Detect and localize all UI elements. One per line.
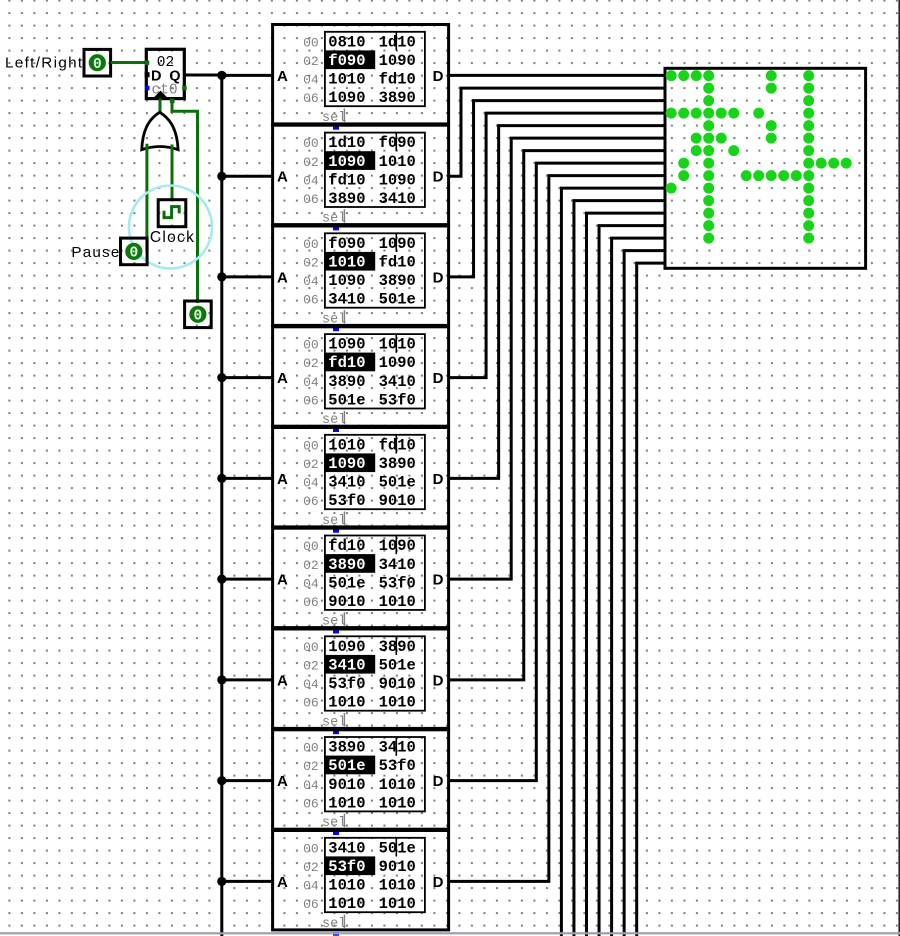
svg-text:02: 02 bbox=[303, 759, 319, 774]
led r7c13 bbox=[828, 158, 839, 169]
svg-text:D: D bbox=[433, 874, 444, 891]
led r4c3 bbox=[703, 120, 714, 131]
canvas right border bbox=[898, 0, 900, 936]
wire ROM13 (offscreen) D to matrix row 12 bbox=[599, 226, 665, 936]
wire ROM7 D to matrix row 6 bbox=[449, 151, 665, 680]
svg-text:53f0: 53f0 bbox=[379, 757, 416, 775]
node bus junction 6 bbox=[217, 575, 226, 584]
svg-text:fd10: fd10 bbox=[379, 436, 416, 454]
svg-text:00: 00 bbox=[303, 640, 319, 655]
clock CLK1 bbox=[158, 200, 186, 227]
led r2c11 bbox=[803, 95, 814, 106]
wire Left/Right pin to counter D input bbox=[111, 61, 146, 64]
node ROM8 sel pin bbox=[333, 731, 339, 735]
led r8c6 bbox=[741, 170, 752, 181]
wire ROM4 D to matrix row 3 bbox=[449, 113, 665, 378]
svg-text:A: A bbox=[277, 572, 288, 589]
svg-text:1d10: 1d10 bbox=[328, 134, 365, 152]
led r7c12 bbox=[816, 158, 827, 169]
led r7c3 bbox=[703, 158, 714, 169]
led r0c1 bbox=[678, 70, 689, 81]
svg-text:3890: 3890 bbox=[379, 638, 416, 656]
node bus junction 3 bbox=[217, 272, 226, 281]
node bus junction 9 bbox=[217, 877, 226, 886]
svg-text:1090: 1090 bbox=[379, 52, 416, 70]
svg-text:1010: 1010 bbox=[328, 877, 365, 895]
svg-text:04: 04 bbox=[303, 375, 319, 390]
ROM U2 bbox=[273, 25, 449, 126]
svg-text:1010: 1010 bbox=[328, 794, 365, 812]
wire ROM8 D to matrix row 7 bbox=[449, 163, 665, 781]
led r0c2 bbox=[691, 70, 702, 81]
svg-text:00: 00 bbox=[303, 338, 319, 353]
led r1c3 bbox=[703, 83, 714, 94]
svg-text:3410: 3410 bbox=[379, 739, 416, 757]
wire bus to ROM1 A input bbox=[222, 74, 273, 77]
or-gate G1 bbox=[142, 112, 178, 150]
wire ROM5 D to matrix row 4 bbox=[449, 126, 665, 479]
canvas bottom border bbox=[0, 932, 900, 934]
svg-text:9010: 9010 bbox=[328, 593, 365, 611]
svg-text:06: 06 bbox=[303, 796, 319, 811]
svg-text:501e: 501e bbox=[328, 391, 365, 409]
led r6c11 bbox=[803, 145, 814, 156]
svg-text:1010: 1010 bbox=[379, 694, 416, 712]
wire bus to ROM2 A input bbox=[222, 175, 273, 178]
led r3c5 bbox=[728, 108, 739, 119]
svg-text:1090: 1090 bbox=[328, 153, 365, 171]
svg-text:1090: 1090 bbox=[379, 537, 416, 555]
node bus junction 7 bbox=[217, 675, 226, 684]
ROM U9 bbox=[273, 730, 449, 831]
svg-text:fd10: fd10 bbox=[328, 171, 365, 189]
node ROM4 sel pin bbox=[333, 328, 339, 332]
wire ROM1 D to matrix row 0 bbox=[449, 74, 665, 77]
svg-text:06: 06 bbox=[303, 696, 319, 711]
led r12c3 bbox=[703, 220, 714, 231]
wire counter Q output to bus bbox=[184, 74, 222, 77]
svg-text:1010: 1010 bbox=[328, 254, 365, 272]
svg-text:0: 0 bbox=[93, 57, 102, 73]
led r6c3 bbox=[703, 145, 714, 156]
led r11c11 bbox=[803, 208, 814, 219]
svg-text:1090: 1090 bbox=[379, 354, 416, 372]
svg-text:53f0: 53f0 bbox=[328, 675, 365, 693]
led r8c10 bbox=[791, 170, 802, 181]
svg-text:3890: 3890 bbox=[328, 556, 365, 574]
svg-text:04: 04 bbox=[303, 879, 319, 894]
clock halo circle bbox=[129, 186, 212, 269]
svg-text:00: 00 bbox=[303, 741, 319, 756]
wire counter clock input to OR output bbox=[159, 99, 162, 113]
svg-text:06: 06 bbox=[303, 595, 319, 610]
svg-text:9010: 9010 bbox=[379, 858, 416, 876]
led r3c0 bbox=[666, 108, 677, 119]
svg-text:53f0: 53f0 bbox=[328, 858, 365, 876]
svg-text:sel: sel bbox=[322, 312, 346, 327]
wire bus to ROM8 A input bbox=[222, 779, 273, 782]
svg-text:00: 00 bbox=[303, 841, 319, 856]
led r3c3 bbox=[703, 108, 714, 119]
wire ROM14 (offscreen) D to matrix row 13 bbox=[612, 238, 665, 936]
svg-text:501e: 501e bbox=[328, 574, 365, 592]
svg-text:1010: 1010 bbox=[379, 153, 416, 171]
wire ROM2 D to matrix row 1 bbox=[449, 88, 665, 176]
svg-text:06: 06 bbox=[303, 192, 319, 207]
led r5c3 bbox=[703, 133, 714, 144]
svg-text:04: 04 bbox=[303, 576, 319, 591]
led r8c11 bbox=[803, 170, 814, 181]
svg-text:3890: 3890 bbox=[328, 739, 365, 757]
svg-text:53f0: 53f0 bbox=[328, 492, 365, 510]
node bus junction 8 bbox=[217, 776, 226, 785]
svg-text:1090: 1090 bbox=[328, 638, 365, 656]
svg-text:A: A bbox=[277, 773, 288, 790]
led r11c3 bbox=[703, 208, 714, 219]
ROM U7 bbox=[273, 528, 449, 629]
led r4c8 bbox=[766, 120, 777, 131]
wire bus to ROM7 A input bbox=[222, 678, 273, 681]
ROM U6 bbox=[273, 428, 449, 529]
svg-text:fd10: fd10 bbox=[379, 71, 416, 89]
svg-text:3410: 3410 bbox=[379, 190, 416, 208]
wire counter enable to bottom pin bbox=[172, 100, 198, 303]
svg-text:00: 00 bbox=[303, 136, 319, 151]
svg-text:00: 00 bbox=[303, 438, 319, 453]
counter U1 bbox=[145, 49, 187, 103]
led r7c11 bbox=[803, 158, 814, 169]
svg-text:A: A bbox=[277, 672, 288, 689]
led r7c14 bbox=[841, 158, 852, 169]
ROM U8 bbox=[273, 629, 449, 730]
svg-text:fd10: fd10 bbox=[328, 354, 365, 372]
svg-text:1090: 1090 bbox=[379, 235, 416, 253]
svg-text:04: 04 bbox=[303, 173, 319, 188]
svg-text:501e: 501e bbox=[379, 839, 416, 857]
svg-text:f090: f090 bbox=[328, 235, 365, 253]
svg-text:501e: 501e bbox=[379, 657, 416, 675]
led r9c11 bbox=[803, 183, 814, 194]
led r3c1 bbox=[678, 108, 689, 119]
wire address bus vertical bbox=[220, 75, 223, 936]
wire bus to ROM5 A input bbox=[222, 477, 273, 480]
svg-text:1090: 1090 bbox=[328, 336, 365, 354]
svg-text:3410: 3410 bbox=[379, 373, 416, 391]
svg-text:Pause: Pause bbox=[71, 244, 120, 261]
svg-text:06: 06 bbox=[303, 393, 319, 408]
wire bus to ROM9 A input bbox=[222, 880, 273, 883]
led r0c8 bbox=[766, 70, 777, 81]
svg-text:3890: 3890 bbox=[379, 455, 416, 473]
svg-text:02: 02 bbox=[303, 356, 319, 371]
svg-text:1010: 1010 bbox=[328, 694, 365, 712]
node bus junction 4 bbox=[217, 373, 226, 382]
svg-text:04: 04 bbox=[303, 274, 319, 289]
svg-text:1010: 1010 bbox=[328, 895, 365, 913]
wire bus to ROM6 A input bbox=[222, 578, 273, 581]
svg-text:A: A bbox=[277, 874, 288, 891]
svg-text:06: 06 bbox=[303, 494, 319, 509]
svg-text:9010: 9010 bbox=[379, 492, 416, 510]
svg-text:sel: sel bbox=[322, 111, 346, 126]
svg-text:1090: 1090 bbox=[328, 272, 365, 290]
svg-text:sel: sel bbox=[322, 413, 346, 428]
wire ROM6 D to matrix row 5 bbox=[449, 138, 665, 579]
node bus junction 2 bbox=[217, 172, 226, 181]
led r8c7 bbox=[753, 170, 764, 181]
svg-text:1010: 1010 bbox=[328, 436, 365, 454]
svg-text:3890: 3890 bbox=[379, 272, 416, 290]
svg-text:0: 0 bbox=[129, 246, 138, 262]
svg-text:A: A bbox=[277, 471, 288, 488]
svg-text:sel: sel bbox=[322, 715, 346, 730]
svg-text:f090: f090 bbox=[328, 52, 365, 70]
svg-text:04: 04 bbox=[303, 476, 319, 491]
svg-text:Left/Right: Left/Right bbox=[5, 55, 84, 72]
svg-text:sel: sel bbox=[322, 514, 346, 529]
svg-text:501e: 501e bbox=[328, 757, 365, 775]
led matrix display bbox=[665, 68, 866, 268]
led r10c11 bbox=[803, 195, 814, 206]
node ROM5 sel pin bbox=[333, 428, 339, 432]
svg-text:00: 00 bbox=[303, 237, 319, 252]
wire OR right input to Clock output bbox=[171, 145, 174, 200]
svg-text:0: 0 bbox=[194, 309, 203, 325]
svg-text:3890: 3890 bbox=[328, 373, 365, 391]
svg-text:1010: 1010 bbox=[328, 71, 365, 89]
led r8c3 bbox=[703, 170, 714, 181]
svg-text:9010: 9010 bbox=[379, 675, 416, 693]
led r5c4 bbox=[716, 133, 727, 144]
led r3c7 bbox=[753, 108, 764, 119]
led r1c11 bbox=[803, 83, 814, 94]
wire ROM3 D to matrix row 2 bbox=[449, 101, 665, 277]
svg-text:D: D bbox=[433, 169, 444, 186]
svg-text:3410: 3410 bbox=[328, 839, 365, 857]
led r3c2 bbox=[691, 108, 702, 119]
svg-text:D: D bbox=[433, 572, 444, 589]
led r6c2 bbox=[691, 145, 702, 156]
svg-text:501e: 501e bbox=[379, 291, 416, 309]
svg-text:53f0: 53f0 bbox=[379, 391, 416, 409]
input pin Pause bbox=[121, 238, 148, 265]
svg-text:1010: 1010 bbox=[379, 776, 416, 794]
node bus junction 1 bbox=[217, 71, 226, 80]
led r13c11 bbox=[803, 233, 814, 244]
svg-text:06: 06 bbox=[303, 91, 319, 106]
svg-text:9010: 9010 bbox=[328, 776, 365, 794]
led r0c0 bbox=[666, 70, 677, 81]
svg-text:00: 00 bbox=[303, 539, 319, 554]
svg-text:D: D bbox=[433, 773, 444, 790]
ROM U10 bbox=[273, 831, 449, 932]
svg-text:D: D bbox=[433, 471, 444, 488]
svg-text:00: 00 bbox=[303, 35, 319, 50]
svg-text:3410: 3410 bbox=[328, 291, 365, 309]
svg-text:06: 06 bbox=[303, 293, 319, 308]
svg-text:1090: 1090 bbox=[328, 455, 365, 473]
led r9c0 bbox=[666, 183, 677, 194]
led r4c11 bbox=[803, 120, 814, 131]
wire ROM16 (offscreen) D to matrix row 15 bbox=[637, 263, 665, 936]
ROM U5 bbox=[273, 327, 449, 428]
svg-text:f090: f090 bbox=[379, 134, 416, 152]
svg-text:D: D bbox=[433, 269, 444, 286]
wire ROM10 (offscreen) D to matrix row 9 bbox=[561, 188, 665, 936]
svg-text:sel: sel bbox=[322, 917, 346, 932]
input pin Left/Right bbox=[84, 49, 111, 76]
led r8c9 bbox=[778, 170, 789, 181]
led r0c11 bbox=[803, 70, 814, 81]
input pin enable value 0 bbox=[185, 301, 212, 328]
led r9c3 bbox=[703, 183, 714, 194]
svg-text:501e: 501e bbox=[379, 474, 416, 492]
led r5c11 bbox=[803, 133, 814, 144]
svg-text:02: 02 bbox=[303, 659, 319, 674]
svg-text:fd10: fd10 bbox=[379, 254, 416, 272]
svg-text:Clock: Clock bbox=[150, 229, 195, 246]
svg-text:04: 04 bbox=[303, 677, 319, 692]
svg-text:sel: sel bbox=[322, 615, 346, 630]
svg-text:02: 02 bbox=[303, 558, 319, 573]
node ROM3 sel pin bbox=[333, 227, 339, 231]
led r13c3 bbox=[703, 233, 714, 244]
wire ROM12 (offscreen) D to matrix row 11 bbox=[587, 213, 666, 936]
svg-text:3410: 3410 bbox=[379, 556, 416, 574]
led r3c11 bbox=[803, 108, 814, 119]
ROM U4 bbox=[273, 226, 449, 327]
led r5c2 bbox=[691, 133, 702, 144]
svg-text:1010: 1010 bbox=[379, 593, 416, 611]
svg-text:3890: 3890 bbox=[379, 89, 416, 107]
svg-text:1090: 1090 bbox=[328, 89, 365, 107]
svg-text:04: 04 bbox=[303, 73, 319, 88]
svg-text:1010: 1010 bbox=[379, 794, 416, 812]
wire ROM9 D to matrix row 8 bbox=[449, 176, 665, 882]
svg-text:02: 02 bbox=[303, 457, 319, 472]
svg-text:1d10: 1d10 bbox=[379, 33, 416, 51]
svg-text:3410: 3410 bbox=[328, 474, 365, 492]
led r3c4 bbox=[716, 108, 727, 119]
wire ROM11 (offscreen) D to matrix row 10 bbox=[574, 201, 665, 936]
svg-text:A: A bbox=[277, 68, 288, 85]
svg-text:1010: 1010 bbox=[379, 336, 416, 354]
svg-text:1010: 1010 bbox=[379, 877, 416, 895]
svg-text:D: D bbox=[433, 672, 444, 689]
svg-text:53f0: 53f0 bbox=[379, 574, 416, 592]
node ROM7 sel pin bbox=[333, 630, 339, 634]
svg-text:fd10: fd10 bbox=[328, 537, 365, 555]
wire OR left input to Pause pin bbox=[145, 144, 148, 252]
svg-text:1010: 1010 bbox=[379, 895, 416, 913]
led r8c8 bbox=[766, 170, 777, 181]
svg-text:06: 06 bbox=[303, 897, 319, 912]
node ROM2 sel pin bbox=[333, 126, 339, 130]
wire bus to ROM4 A input bbox=[222, 376, 273, 379]
svg-text:A: A bbox=[277, 269, 288, 286]
led r5c8 bbox=[766, 133, 777, 144]
svg-text:02: 02 bbox=[303, 155, 319, 170]
svg-text:1090: 1090 bbox=[379, 171, 416, 189]
led r8c1 bbox=[678, 170, 689, 181]
ROM U3 bbox=[273, 125, 449, 226]
svg-text:02: 02 bbox=[303, 860, 319, 875]
svg-text:3890: 3890 bbox=[328, 190, 365, 208]
node ROM10 sel pin bbox=[333, 932, 339, 936]
svg-text:D: D bbox=[433, 68, 444, 85]
svg-text:02: 02 bbox=[303, 256, 319, 271]
node ROM6 sel pin bbox=[333, 529, 339, 533]
svg-text:A: A bbox=[277, 169, 288, 186]
led r1c8 bbox=[766, 83, 777, 94]
svg-text:04: 04 bbox=[303, 778, 319, 793]
led r6c5 bbox=[728, 145, 739, 156]
svg-text:sel: sel bbox=[322, 212, 346, 227]
led r2c3 bbox=[703, 95, 714, 106]
led r10c3 bbox=[703, 195, 714, 206]
svg-text:A: A bbox=[277, 370, 288, 387]
node bus junction 5 bbox=[217, 474, 226, 483]
svg-text:02: 02 bbox=[303, 54, 319, 69]
svg-text:D: D bbox=[433, 370, 444, 387]
led r0c3 bbox=[703, 70, 714, 81]
wire ROM15 (offscreen) D to matrix row 14 bbox=[624, 251, 665, 936]
svg-text:0810: 0810 bbox=[328, 33, 365, 51]
led r12c11 bbox=[803, 220, 814, 231]
svg-text:sel: sel bbox=[322, 816, 346, 831]
svg-text:3410: 3410 bbox=[328, 657, 365, 675]
wire bus to ROM3 A input bbox=[222, 275, 273, 278]
led r7c1 bbox=[678, 158, 689, 169]
node ROM9 sel pin bbox=[333, 831, 339, 835]
